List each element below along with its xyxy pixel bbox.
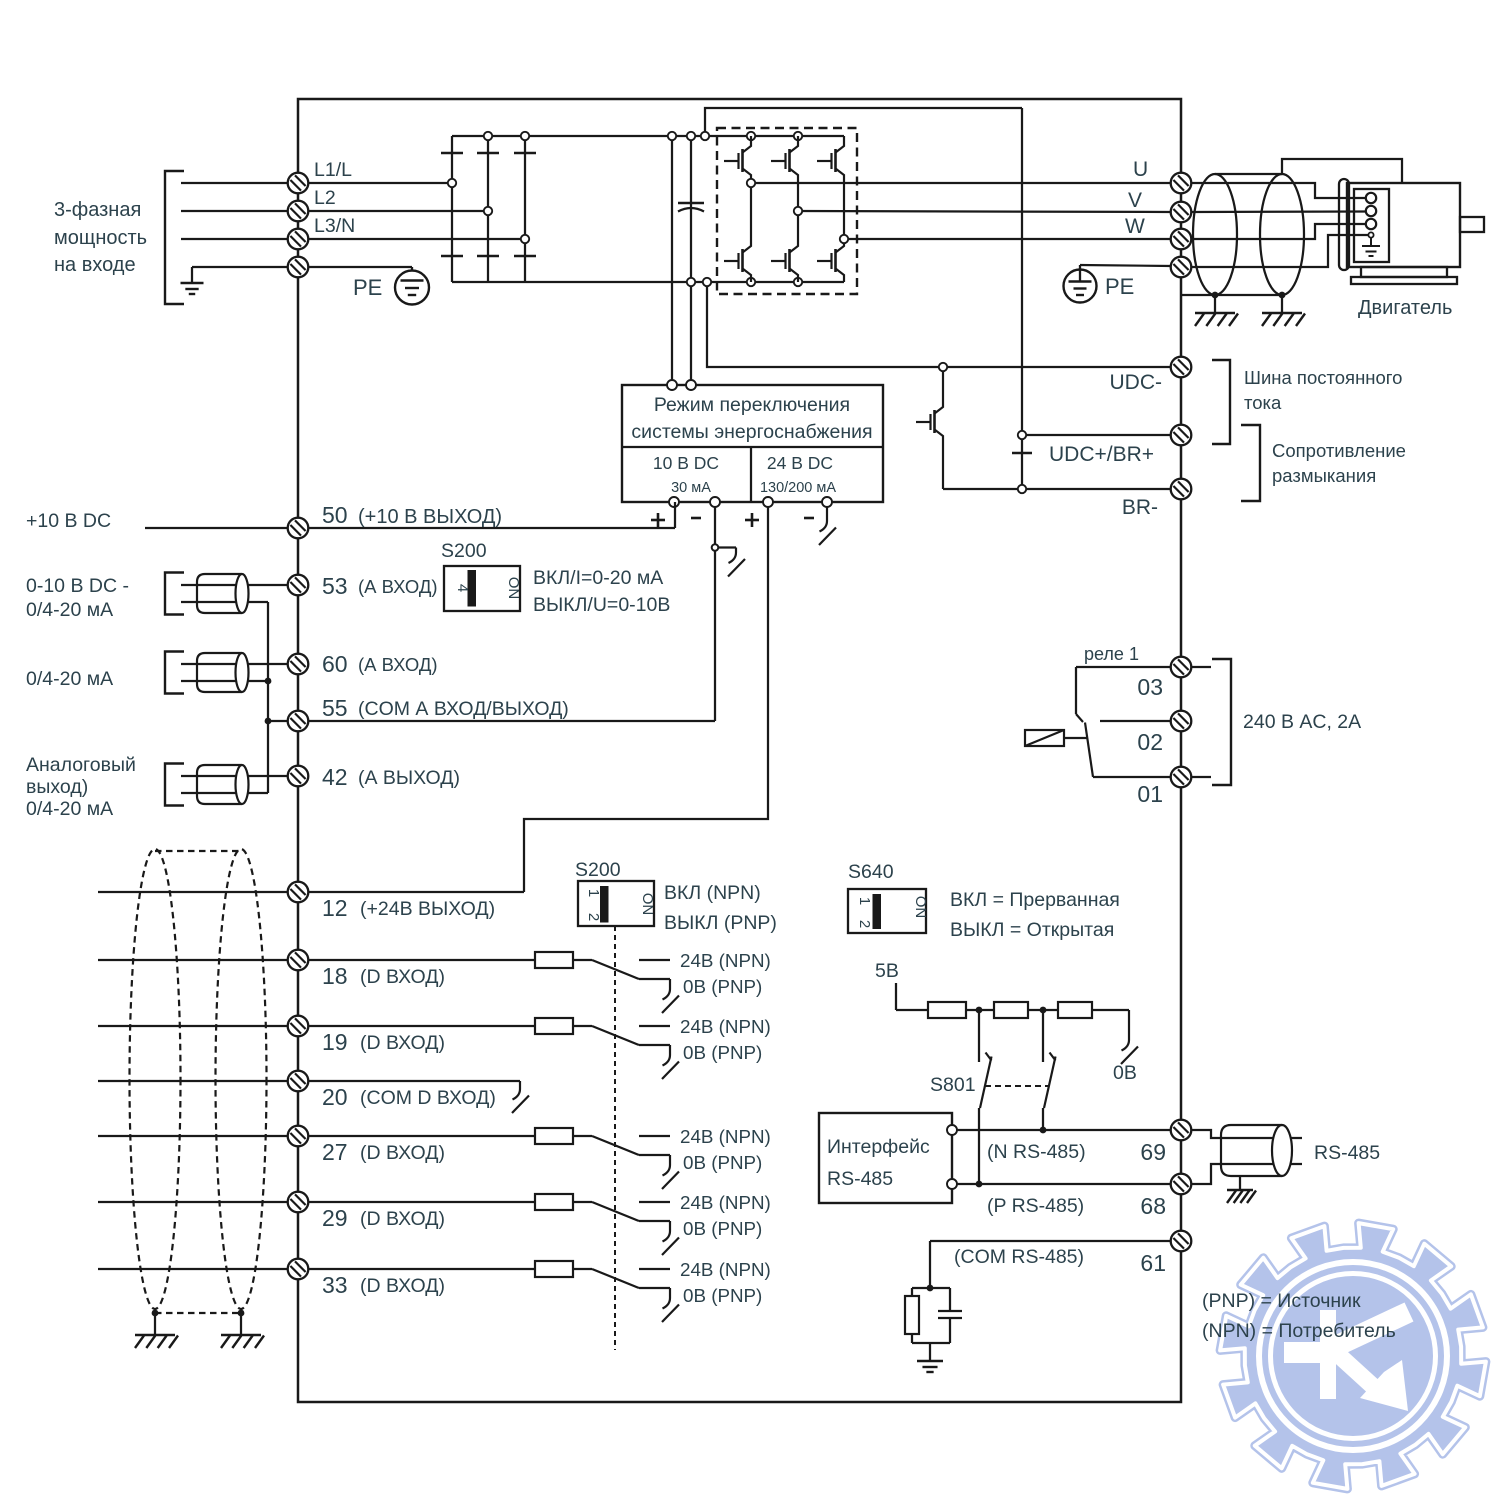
svg-text:L3/N: L3/N (314, 215, 355, 237)
svg-text:(+24В ВЫХОД): (+24В ВЫХОД) (360, 898, 495, 920)
svg-text:(D ВХОД): (D ВХОД) (360, 966, 445, 988)
svg-text:S640: S640 (848, 861, 894, 883)
svg-text:ВКЛ = Прерванная: ВКЛ = Прерванная (950, 889, 1120, 911)
svg-text:19: 19 (322, 1029, 348, 1055)
svg-text:(COM D ВХОД): (COM D ВХОД) (360, 1087, 496, 1109)
svg-text:тока: тока (1244, 392, 1282, 413)
svg-text:UDC-: UDC- (1110, 371, 1163, 394)
svg-text:(COM А ВХОД/ВЫХОД): (COM А ВХОД/ВЫХОД) (358, 698, 569, 720)
svg-text:RS-485: RS-485 (827, 1168, 893, 1190)
svg-text:ВКЛ/I=0-20 мА: ВКЛ/I=0-20 мА (533, 567, 663, 589)
svg-text:Двигатель: Двигатель (1358, 297, 1452, 319)
svg-text:5В: 5В (875, 960, 899, 982)
svg-text:61: 61 (1140, 1250, 1166, 1276)
svg-text:(А ВЫХОД): (А ВЫХОД) (358, 767, 460, 789)
svg-text:ВЫКЛ/U=0-10В: ВЫКЛ/U=0-10В (533, 594, 670, 616)
svg-text:0В (PNP): 0В (PNP) (683, 1152, 762, 1173)
svg-text:(D ВХОД): (D ВХОД) (360, 1142, 445, 1164)
svg-text:0В (PNP): 0В (PNP) (683, 976, 762, 997)
svg-text:33: 33 (322, 1272, 348, 1298)
svg-text:0В (PNP): 0В (PNP) (683, 1218, 762, 1239)
svg-text:S200: S200 (575, 859, 621, 881)
svg-text:24В (NPN): 24В (NPN) (680, 1259, 771, 1280)
svg-text:0-10 В DC -: 0-10 В DC - (26, 575, 129, 597)
svg-text:реле 1: реле 1 (1084, 644, 1139, 664)
svg-text:69: 69 (1140, 1139, 1166, 1165)
svg-text:10 В DC: 10 В DC (653, 453, 719, 473)
svg-text:3-фазная: 3-фазная (54, 199, 141, 221)
svg-text:выход): выход) (26, 776, 88, 798)
svg-text:24 В DC: 24 В DC (767, 453, 833, 473)
svg-text:Интерфейс: Интерфейс (827, 1136, 930, 1158)
svg-text:24В (NPN): 24В (NPN) (680, 1126, 771, 1147)
svg-text:4: 4 (454, 584, 471, 592)
svg-text:12: 12 (322, 895, 348, 921)
svg-text:30 мА: 30 мА (671, 480, 711, 496)
svg-text:U: U (1133, 158, 1148, 181)
svg-text:системы энергоснабжения: системы энергоснабжения (631, 421, 872, 443)
svg-text:(D ВХОД): (D ВХОД) (360, 1275, 445, 1297)
svg-text:ON: ON (639, 893, 656, 916)
svg-text:UDC+/BR+: UDC+/BR+ (1049, 443, 1154, 466)
svg-text:(PNP) = Источник: (PNP) = Источник (1202, 1290, 1361, 1312)
svg-text:02: 02 (1137, 729, 1163, 755)
svg-text:(NPN) = Потребитель: (NPN) = Потребитель (1202, 1320, 1396, 1342)
svg-text:ВКЛ (NPN): ВКЛ (NPN) (664, 882, 761, 904)
svg-text:01: 01 (1137, 781, 1163, 807)
svg-text:2: 2 (856, 920, 873, 928)
svg-text:03: 03 (1137, 674, 1163, 700)
svg-text:0В (PNP): 0В (PNP) (683, 1285, 762, 1306)
svg-text:(D ВХОД): (D ВХОД) (360, 1208, 445, 1230)
svg-text:0/4-20 мА: 0/4-20 мА (26, 668, 113, 690)
svg-text:ON: ON (912, 896, 929, 919)
svg-text:BR-: BR- (1122, 496, 1158, 519)
svg-text:Аналоговый: Аналоговый (26, 754, 136, 776)
svg-text:Сопротивление: Сопротивление (1272, 440, 1406, 461)
svg-text:Режим переключения: Режим переключения (654, 394, 850, 416)
svg-text:1: 1 (585, 889, 602, 897)
svg-text:Шина постоянного: Шина постоянного (1244, 367, 1402, 388)
svg-text:мощность: мощность (54, 227, 147, 249)
svg-text:27: 27 (322, 1139, 348, 1165)
svg-text:0В (PNP): 0В (PNP) (683, 1042, 762, 1063)
svg-text:0/4-20 мА: 0/4-20 мА (26, 599, 113, 621)
svg-text:2: 2 (585, 913, 602, 921)
svg-text:L2: L2 (314, 187, 336, 209)
svg-text:55: 55 (322, 695, 348, 721)
svg-text:ВЫКЛ (PNP): ВЫКЛ (PNP) (664, 912, 777, 934)
svg-text:W: W (1125, 215, 1145, 238)
svg-text:1: 1 (856, 897, 873, 905)
svg-text:68: 68 (1140, 1193, 1166, 1219)
svg-text:размыкания: размыкания (1272, 465, 1376, 486)
svg-text:60: 60 (322, 651, 348, 677)
svg-text:V: V (1128, 189, 1142, 212)
svg-text:(А ВХОД): (А ВХОД) (358, 576, 438, 597)
svg-text:24В (NPN): 24В (NPN) (680, 1016, 771, 1037)
svg-text:130/200 мА: 130/200 мА (760, 480, 836, 496)
svg-text:S801: S801 (930, 1074, 976, 1096)
svg-text:(P RS-485): (P RS-485) (987, 1195, 1084, 1217)
svg-text:ВЫКЛ = Открытая: ВЫКЛ = Открытая (950, 919, 1114, 941)
svg-text:PE: PE (353, 275, 382, 300)
svg-text:(+10 В ВЫХОД): (+10 В ВЫХОД) (358, 506, 502, 528)
svg-text:ON: ON (505, 577, 522, 600)
svg-text:L1/L: L1/L (314, 159, 352, 181)
svg-text:(N RS-485): (N RS-485) (987, 1141, 1086, 1163)
svg-text:0В: 0В (1113, 1062, 1137, 1084)
svg-text:18: 18 (322, 963, 348, 989)
svg-text:PE: PE (1105, 274, 1134, 299)
svg-text:(D ВХОД): (D ВХОД) (360, 1032, 445, 1054)
svg-text:24В (NPN): 24В (NPN) (680, 1192, 771, 1213)
svg-text:0/4-20 мА: 0/4-20 мА (26, 798, 113, 820)
svg-text:на входе: на входе (54, 254, 136, 276)
svg-text:29: 29 (322, 1205, 348, 1231)
svg-text:(COM RS-485): (COM RS-485) (954, 1246, 1084, 1268)
svg-text:(А ВХОД): (А ВХОД) (358, 654, 438, 675)
svg-text:42: 42 (322, 764, 348, 790)
svg-text:50: 50 (322, 502, 348, 528)
svg-text:53: 53 (322, 573, 348, 599)
svg-text:240 В AC, 2А: 240 В AC, 2А (1243, 711, 1361, 733)
svg-text:RS-485: RS-485 (1314, 1142, 1380, 1164)
svg-text:24В (NPN): 24В (NPN) (680, 950, 771, 971)
svg-text:20: 20 (322, 1084, 348, 1110)
svg-text:S200: S200 (441, 540, 487, 562)
svg-text:+10 В DC: +10 В DC (26, 510, 111, 532)
